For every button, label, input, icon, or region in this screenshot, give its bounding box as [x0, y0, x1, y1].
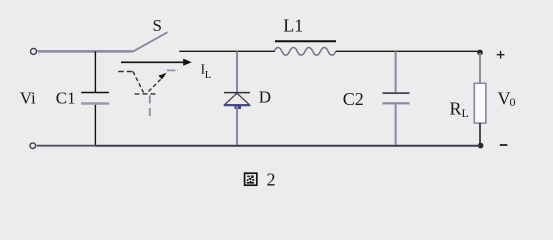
capacitor C2 top plate [383, 92, 410, 94]
load RL top lead [479, 53, 481, 84]
svg-text:0: 0 [510, 95, 516, 109]
diode D junction blob [235, 106, 242, 109]
transistor Q emitter diagonal [149, 79, 162, 92]
wire switch to L1 [179, 50, 275, 52]
resistor RL body [474, 83, 486, 123]
input terminal top [31, 48, 37, 54]
inductor L1 coil [274, 47, 336, 55]
transistor Q (dashed switch implementation) collector dash [118, 71, 133, 73]
capacitor C2 top lead [395, 51, 397, 93]
diode D bottom lead [236, 106, 238, 146]
svg-text:L: L [205, 69, 212, 81]
wire L1 to output node [336, 50, 479, 52]
diode D anode bar (blue) [224, 104, 250, 106]
switch S blade [133, 32, 168, 52]
wire top-left [38, 50, 133, 53]
plus sign [497, 54, 505, 56]
capacitor C1 top plate [81, 92, 109, 94]
svg-text:Vi: Vi [20, 88, 36, 107]
capacitor C1 bottom lead [94, 105, 96, 146]
transistor Q emitter dash right [167, 69, 178, 71]
svg-text:2: 2 [267, 170, 276, 189]
transistor Q base lead down [149, 96, 151, 119]
capacitor C1 bottom plate [81, 102, 109, 104]
caption glyph 图 [245, 173, 257, 185]
capacitor C2 bottom lead [395, 104, 397, 145]
svg-text:S: S [153, 16, 162, 35]
inductor L1 core bar [275, 40, 336, 42]
diode D triangle [225, 93, 250, 105]
transistor Q emitter arrowhead [158, 73, 166, 80]
svg-text:D: D [259, 87, 271, 106]
wire bottom main [95, 145, 480, 147]
svg-text:L1: L1 [283, 15, 303, 35]
wire bottom left [37, 145, 96, 147]
diode D cathode bar [224, 92, 250, 94]
diode D top lead [236, 51, 238, 92]
svg-text:C2: C2 [343, 89, 364, 109]
capacitor C1 top lead [94, 51, 96, 92]
transistor Q base bar [135, 93, 158, 95]
capacitor C2 bottom plate [383, 102, 410, 104]
load RL bottom lead [479, 123, 481, 145]
svg-text:R: R [450, 99, 462, 119]
node dot bottom-right [478, 143, 484, 149]
transistor Q collector diagonal [133, 72, 144, 93]
inductor current arrow IL [121, 61, 184, 63]
node dot top-right [477, 50, 483, 56]
input terminal bottom [30, 143, 36, 149]
svg-text:L: L [462, 106, 469, 120]
minus sign [500, 144, 508, 146]
svg-text:C1: C1 [56, 88, 76, 107]
